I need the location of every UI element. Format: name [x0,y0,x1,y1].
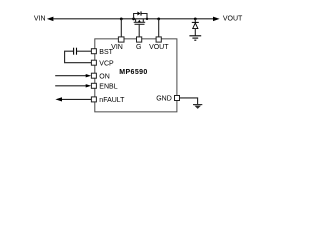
wire ENBL arrow head [86,84,92,87]
wire VIN input arrow head [47,17,54,22]
pin ENBL of U1 [91,83,96,88]
svg-text:nFAULT: nFAULT [99,97,125,104]
pin BST of U1 [91,49,96,54]
pin GND of U1 [175,96,180,101]
svg-text:GND: GND [156,96,172,103]
wire C1 to VCP pin [65,51,92,63]
wire drop to U1 VOUT pin [158,19,160,37]
wire ON input [55,75,86,77]
svg-text:VCP: VCP [99,60,114,67]
pin VOUT of U1 [156,37,161,42]
pin VCP of U1 [91,60,96,65]
junction dot at VOUT pin drop [157,17,160,20]
wire nFAULT arrow head [55,97,62,101]
diode D2 body diode of Q1 [137,11,141,15]
wire GND pin to ground [180,98,198,104]
wire D1 anode to ground [194,29,196,36]
svg-text:MP6590: MP6590 [119,69,147,76]
wire ENBL input [55,85,86,87]
transistor Q1 MOSFET [134,19,146,24]
svg-text:G: G [136,44,141,51]
transistor Q1 body-diode loop wire [134,14,147,19]
pin G of U1 [137,37,142,42]
svg-text:VOUT: VOUT [223,16,243,23]
op-amp U1 MP6590 body [95,39,177,112]
pin VIN of U1 [118,37,124,42]
svg-text:VOUT: VOUT [149,44,169,51]
diode D1 clamp (cathode bar and triangle) [192,22,199,28]
wire nFAULT output [62,98,92,100]
wire Q1 gate to U1 G pin [138,24,140,37]
wire VOUT output arrow head [213,17,220,22]
wire ON arrow head [86,74,92,77]
wire C1 to BST pin [77,50,92,52]
pin nFAULT of U1 [91,97,96,102]
svg-text:BST: BST [99,49,113,56]
junction dot at Q1 drain loop [132,17,135,20]
svg-text:VIN: VIN [34,16,46,23]
capacitor C1 bootstrap [74,48,77,55]
junction dot at Q1 source loop [146,18,148,20]
ground symbol at D1 [189,36,201,40]
pin ON of U1 [91,73,96,78]
wire top rail VIN to VOUT [53,18,214,20]
junction dot at VIN pin drop [120,17,123,20]
junction dot at diode D1 tap [194,17,197,20]
ground symbol at GND pin [193,105,202,109]
wire rail to D1 cathode [194,19,196,23]
svg-text:ENBL: ENBL [99,83,117,90]
wire drop to U1 VIN pin [120,19,122,37]
svg-text:ON: ON [99,73,110,80]
